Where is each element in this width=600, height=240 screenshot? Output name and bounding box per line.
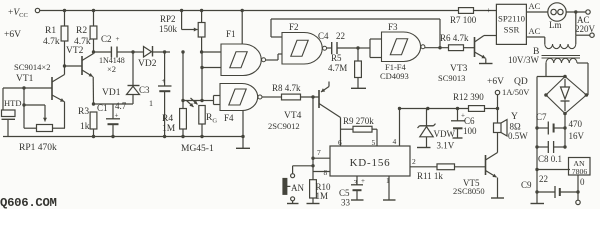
terminal 0 <box>576 200 580 204</box>
node bus C6 <box>456 107 459 110</box>
wire pin7 <box>312 97 314 158</box>
svg-text:R7 100: R7 100 <box>450 15 477 25</box>
svg-text:3.1V: 3.1V <box>437 141 455 151</box>
regulator AN7806 <box>569 158 591 176</box>
svg-text:+: + <box>162 77 166 85</box>
wire SSR-lamp <box>526 11 547 13</box>
schmitt gate F1 <box>221 44 261 76</box>
schmitt gate F2 <box>282 33 322 65</box>
svg-text:1k: 1k <box>80 122 90 132</box>
pushbutton AN <box>293 165 313 167</box>
svg-text:4.7: 4.7 <box>115 101 127 111</box>
svg-text:R9 270k: R9 270k <box>343 116 374 126</box>
wire pin1 gnd <box>388 176 390 200</box>
resistor R12 <box>469 106 485 112</box>
resistor R5 <box>357 48 359 61</box>
svg-text:+: + <box>116 35 120 43</box>
node C8 left <box>535 145 538 148</box>
piezo sensor HTD <box>2 88 4 110</box>
wire F1 vdd <box>241 11 243 45</box>
node rail-RG <box>200 135 203 138</box>
potentiometer RP1 <box>24 104 45 106</box>
node C7 right <box>563 126 566 129</box>
lamp Lm <box>548 3 566 21</box>
node rail-R1 <box>63 9 66 12</box>
node rail-R2 <box>92 9 95 12</box>
RP2 wiper <box>181 11 183 30</box>
node rail-RP2wiper <box>180 9 183 12</box>
diode VD2 <box>133 51 144 53</box>
resistor R8 <box>266 96 282 98</box>
bridge rectifier QD <box>546 77 586 114</box>
node base-RP1 <box>22 86 25 89</box>
svg-text:HTD: HTD <box>4 98 21 108</box>
svg-text:VDW: VDW <box>434 129 456 139</box>
node 7806 in <box>535 168 538 171</box>
svg-text:VD2: VD2 <box>138 59 157 69</box>
+6V terminal <box>495 90 499 94</box>
transistor VT3 <box>474 37 476 57</box>
svg-text:Lm: Lm <box>549 20 562 30</box>
svg-text:+VCC: +VCC <box>8 8 28 19</box>
wire F3out <box>425 47 449 49</box>
svg-text:R2: R2 <box>76 26 87 36</box>
ground R5 <box>351 87 366 89</box>
transformer secondary <box>546 58 554 63</box>
schmitt gate F4 <box>220 84 258 111</box>
diode VD1 <box>132 52 134 86</box>
svg-text:4: 4 <box>393 137 397 146</box>
node AC junction <box>574 10 577 13</box>
svg-text:1M: 1M <box>316 191 329 201</box>
svg-text:RP2: RP2 <box>160 14 176 24</box>
node C8 right <box>563 145 566 148</box>
svg-text:R12 390: R12 390 <box>453 92 484 102</box>
svg-text:4.7k: 4.7k <box>43 37 60 47</box>
speaker Y <box>494 123 502 133</box>
wire secondary right <box>577 62 588 64</box>
F3 input tie <box>358 47 370 49</box>
svg-text:1: 1 <box>149 99 153 108</box>
capacitor C6 <box>457 109 459 121</box>
svg-text:R5: R5 <box>331 53 342 63</box>
wire emitter node <box>94 103 134 105</box>
svg-text:C6: C6 <box>464 116 475 126</box>
node R4-RG-F4 <box>200 99 203 102</box>
node pin7 <box>311 157 314 160</box>
resistor R1 <box>64 11 66 27</box>
wire bus-speaker <box>497 109 499 124</box>
+Vcc supply terminal <box>35 8 39 12</box>
svg-text:VT1: VT1 <box>16 74 34 84</box>
svg-text:8Ω: 8Ω <box>510 122 522 132</box>
AC terminal 1 <box>586 10 590 14</box>
svg-text:Q606.COM: Q606.COM <box>0 196 57 209</box>
svg-text:R8 4.7k: R8 4.7k <box>272 83 301 93</box>
node C9 right <box>576 190 579 193</box>
wire F4 gnd <box>242 111 244 137</box>
resistor R9 <box>341 128 354 130</box>
node rail-F4gnd <box>241 135 244 138</box>
resistor R10 <box>310 180 317 198</box>
wire +6V bus <box>400 108 469 110</box>
svg-text:AC: AC <box>529 26 541 36</box>
svg-text:100: 100 <box>463 126 477 136</box>
SSR module SP2110 <box>496 4 526 44</box>
svg-text:+: + <box>361 177 365 185</box>
svg-text:QD: QD <box>514 77 528 87</box>
svg-text:+6V: +6V <box>487 77 504 87</box>
svg-text:R11 1k: R11 1k <box>417 171 443 181</box>
capacitor C2 <box>94 51 112 53</box>
svg-text:C5: C5 <box>339 188 350 198</box>
zener diode VDW <box>426 109 428 126</box>
wire bottom rail <box>3 136 243 138</box>
wire 7806 input <box>537 169 570 171</box>
capacitor C9 <box>537 191 555 193</box>
transistor VT4 <box>318 90 320 108</box>
wire base-RP1 vertical <box>23 88 25 128</box>
svg-text:+6V: +6V <box>4 30 21 40</box>
node VD2-C3 <box>163 50 166 53</box>
svg-text:C9: C9 <box>521 180 532 190</box>
wire pin5 <box>376 129 378 146</box>
capacitor C7 <box>537 127 548 129</box>
node C2-VD1 <box>131 50 134 53</box>
wire secondary left <box>545 63 547 77</box>
capacitor C5 <box>356 176 358 185</box>
IC KD-156 <box>330 146 410 176</box>
node C7 left <box>535 126 538 129</box>
ground bottom rail <box>242 137 244 149</box>
svg-text:C2: C2 <box>101 34 112 44</box>
svg-text:AN: AN <box>291 183 304 193</box>
svg-text:0: 0 <box>580 177 585 187</box>
svg-text:4.7M: 4.7M <box>328 63 347 73</box>
svg-text:R1: R1 <box>45 26 56 36</box>
svg-text:SC9013: SC9013 <box>438 73 465 83</box>
node RP2-F1in <box>200 50 203 53</box>
svg-text:7806: 7806 <box>572 167 588 176</box>
svg-text:VD1: VD1 <box>102 88 121 98</box>
svg-text:SP2110: SP2110 <box>498 14 526 24</box>
node F1 lower input <box>200 66 203 69</box>
wire lamp-AC <box>566 11 586 13</box>
wire VT2emitter <box>92 77 94 104</box>
svg-text:5: 5 <box>372 138 376 147</box>
resistor R7 <box>459 8 474 14</box>
svg-text:AC: AC <box>529 1 541 11</box>
svg-text:22: 22 <box>336 31 345 41</box>
svg-text:Y: Y <box>511 112 518 122</box>
svg-text:C4: C4 <box>318 31 329 41</box>
svg-text:2SC9012: 2SC9012 <box>268 121 300 131</box>
wire node-R4 <box>183 100 202 102</box>
capacitor C4 <box>327 47 332 49</box>
wire DC left bus <box>536 77 538 204</box>
svg-text:1M: 1M <box>162 124 176 134</box>
wire SSR-primary <box>526 36 544 38</box>
svg-text:C1: C1 <box>97 103 108 113</box>
svg-text:C7: C7 <box>536 112 547 122</box>
node AN tap <box>311 164 314 167</box>
wire 7806 out <box>577 175 579 200</box>
wire F1 lower input <box>202 67 221 69</box>
wire F4out-R8 <box>262 96 266 98</box>
wire pin4 vertical <box>399 109 401 147</box>
wire F3 feedback <box>439 19 441 48</box>
transistor VT5 <box>485 155 487 175</box>
photoresistor RG <box>199 106 205 125</box>
svg-text:MG45-1: MG45-1 <box>181 144 214 154</box>
node feedback tap <box>438 46 441 49</box>
svg-text:C3: C3 <box>139 85 150 95</box>
capacitor C8 <box>537 146 548 148</box>
wire F1out-F2 <box>266 59 278 61</box>
svg-text:CD4093: CD4093 <box>380 71 409 81</box>
svg-text:×2: ×2 <box>107 64 116 74</box>
wire VT4col-pin6 <box>340 118 342 147</box>
transformer primary <box>545 44 553 49</box>
wire AC2 <box>575 12 577 35</box>
svg-text:F1: F1 <box>226 29 236 39</box>
svg-text:0.5W: 0.5W <box>508 131 528 141</box>
svg-text:VT2: VT2 <box>66 46 84 56</box>
resistor R11 <box>410 166 437 168</box>
node C9 left <box>535 190 538 193</box>
svg-text:F3: F3 <box>388 22 398 32</box>
svg-text:KD-156: KD-156 <box>350 157 391 169</box>
transistor VT1 <box>51 77 53 100</box>
svg-text:8: 8 <box>324 168 328 177</box>
node bus VDW <box>426 107 429 110</box>
svg-text:6: 6 <box>338 138 342 147</box>
capacitor C3 <box>164 52 166 86</box>
svg-text:+: + <box>115 112 119 120</box>
wire +Vcc rail <box>40 10 459 12</box>
svg-text:RG: RG <box>206 113 217 125</box>
svg-text:22: 22 <box>539 174 548 184</box>
wire VT1emitter <box>64 102 66 129</box>
ground VT3 <box>485 59 487 64</box>
AC terminal 2 <box>590 33 594 37</box>
svg-text:RP1 470k: RP1 470k <box>19 143 57 153</box>
svg-text:SSR: SSR <box>504 25 520 35</box>
ground VT5 <box>497 178 499 198</box>
wire bridge bottom <box>564 114 566 129</box>
wire pin8 <box>313 171 330 173</box>
node rail-F1vdd <box>241 9 244 12</box>
svg-text:16V: 16V <box>569 131 585 141</box>
svg-text:1A/50V: 1A/50V <box>502 87 530 97</box>
resistor R6 <box>449 45 464 51</box>
svg-text:7: 7 <box>317 148 321 157</box>
node rail-RP2 <box>200 9 203 12</box>
resistor R4 <box>181 50 184 53</box>
svg-text:R6 4.7k: R6 4.7k <box>440 33 469 43</box>
svg-text:C8 0.1: C8 0.1 <box>538 154 562 164</box>
node C4-R5-F3 <box>356 46 359 49</box>
resistor R2 <box>93 11 95 27</box>
svg-text:+: + <box>487 6 492 15</box>
wire C7-C8 right <box>564 128 566 147</box>
svg-text:F2: F2 <box>289 22 299 32</box>
node R2-C2-VT2col <box>92 50 95 53</box>
svg-text:2SC8050: 2SC8050 <box>453 186 485 196</box>
transistor VT2 <box>81 56 83 75</box>
svg-text:R3: R3 <box>78 107 89 117</box>
svg-text:470: 470 <box>569 119 583 129</box>
node bus pin4 <box>398 107 401 110</box>
wire R10 vertical <box>312 158 314 180</box>
svg-text:33: 33 <box>341 198 351 208</box>
potentiometer RP2 <box>201 11 203 23</box>
svg-text:150k: 150k <box>159 24 178 34</box>
schmitt gate F3 <box>382 32 421 62</box>
capacitor C1 <box>112 104 114 119</box>
wire bridge top <box>537 76 565 78</box>
node RP1 wiper tap <box>22 103 25 106</box>
node bus +6V <box>496 107 499 110</box>
svg-text:F4: F4 <box>224 113 234 123</box>
node VT2e-R3-C1 <box>92 102 95 105</box>
svg-text:VT4: VT4 <box>284 111 302 121</box>
node VT1col-R1-VT2base <box>63 64 66 67</box>
svg-text:10V/3W: 10V/3W <box>508 55 540 65</box>
svg-text:R4: R4 <box>162 114 173 124</box>
ground DC left <box>531 203 545 205</box>
transformer core <box>542 55 581 57</box>
node base-pin7 <box>311 95 314 98</box>
svg-text:SC9014×2: SC9014×2 <box>14 62 50 72</box>
wire sensor node <box>202 51 221 53</box>
resistor R3 <box>90 112 97 129</box>
F4 input tie <box>213 96 215 105</box>
svg-text:2: 2 <box>412 157 416 166</box>
